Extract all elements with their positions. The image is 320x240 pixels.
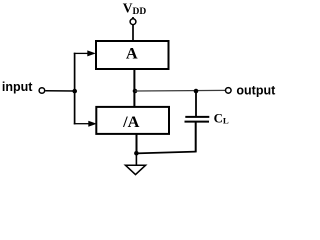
wire bottom return: [136, 152, 195, 154]
node capacitor tap: [194, 89, 199, 94]
ground stem: [135, 153, 137, 165]
wire capacitor bottom: [195, 122, 197, 153]
svg-text:VDD: VDD: [123, 0, 147, 17]
wire output: [135, 89, 225, 92]
wire A output to /A: [133, 69, 135, 107]
wire to /A input: [74, 121, 97, 127]
ground: [125, 165, 145, 174]
terminal VDD: [130, 19, 136, 25]
node output junction: [133, 89, 138, 94]
wire to A input: [74, 50, 96, 56]
svg-text:input: input: [2, 80, 33, 94]
wire capacitor top: [195, 93, 197, 118]
amplifier A: [96, 41, 169, 69]
svg-text:output: output: [236, 83, 276, 97]
terminal output: [226, 88, 232, 94]
svg-text:A: A: [126, 44, 138, 63]
node input junction: [72, 89, 77, 94]
capacitor CL: [185, 111, 229, 125]
wire VDD stub: [132, 17, 134, 41]
svg-text:/A: /A: [122, 112, 140, 131]
amplifier /A: [96, 107, 169, 134]
svg-text:CL: CL: [214, 111, 229, 125]
wire input: [45, 90, 74, 92]
terminal input: [39, 88, 45, 94]
node ground junction: [134, 151, 139, 156]
wire /A output: [136, 134, 138, 153]
wire input vertical: [74, 53, 76, 125]
